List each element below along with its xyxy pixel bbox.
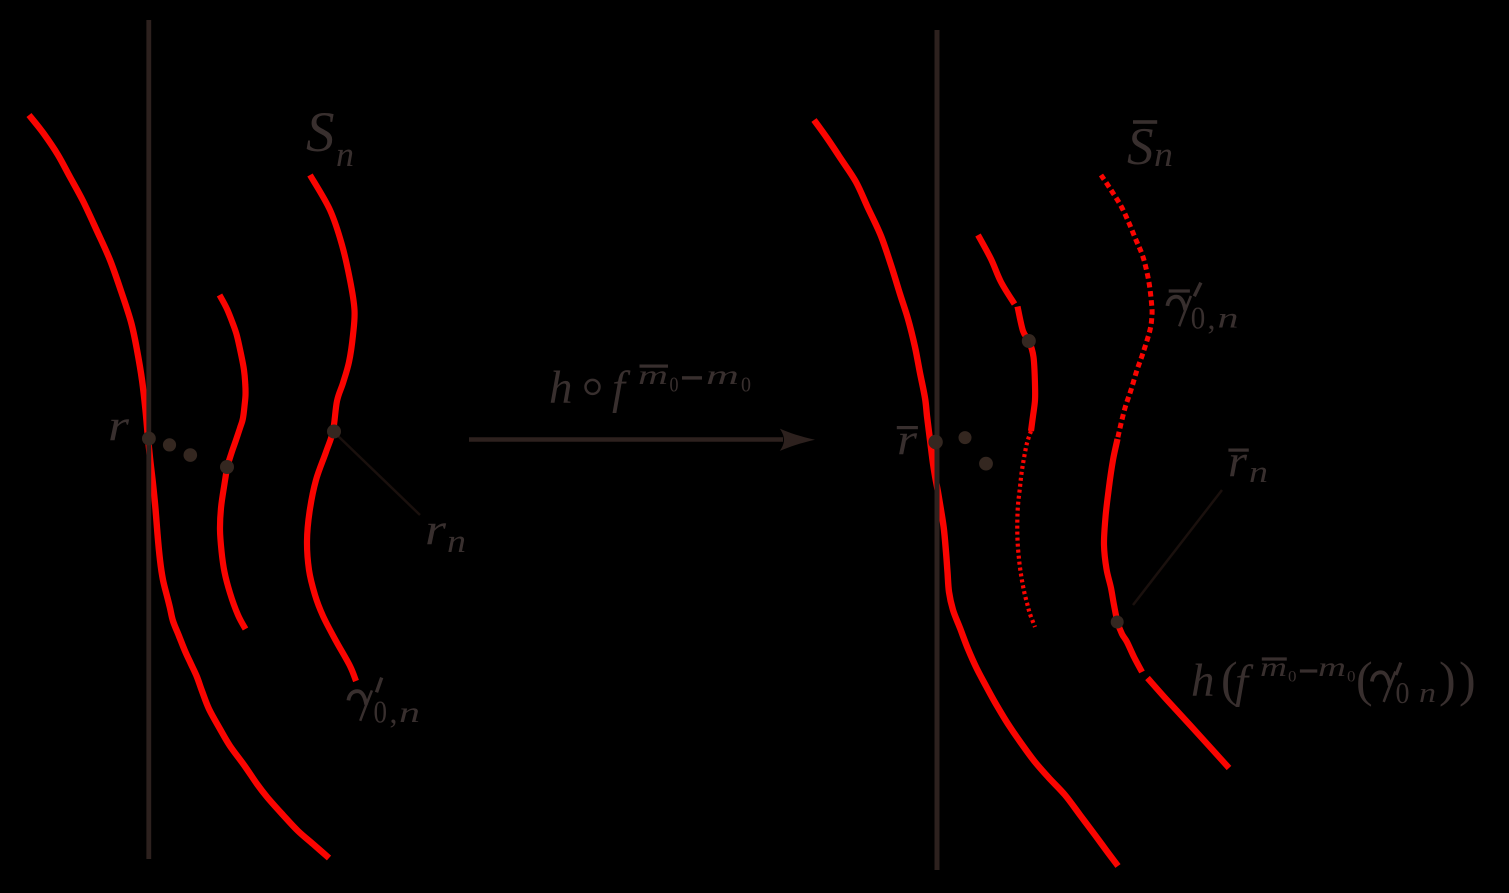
label bar-r_n : bar xyxy=(1228,449,1248,452)
svg-text:m: m xyxy=(638,360,668,390)
dot r on left line xyxy=(142,432,156,446)
svg-text:,: , xyxy=(390,694,398,730)
ellipsis dot 1 right xyxy=(959,431,972,444)
dot on left middle curve xyxy=(220,460,234,474)
svg-text:0: 0 xyxy=(374,694,388,730)
svg-text:0: 0 xyxy=(1191,300,1206,336)
big label : bar over m xyxy=(1262,657,1287,660)
svg-text:m: m xyxy=(706,360,739,390)
svg-text:S: S xyxy=(306,101,335,164)
dot r_n on S_n curve xyxy=(327,425,341,439)
pointer line to label r_n xyxy=(337,435,420,515)
svg-text:r: r xyxy=(108,401,130,450)
wire: left long red curve W xyxy=(29,115,329,858)
vertical line right panel xyxy=(935,30,940,870)
dot on h(f(gamma)) curve xyxy=(1111,616,1124,629)
svg-text:r: r xyxy=(897,415,918,464)
label h o f^m0-m0 : compose circle xyxy=(586,380,600,394)
wire: solid curve h(f(gamma)) part 2 xyxy=(1148,678,1230,768)
label bar-S_n : bar xyxy=(1133,120,1157,124)
svg-text:n: n xyxy=(1249,454,1268,489)
arrow head xyxy=(780,429,815,451)
wire: right middle solid segment B xyxy=(1018,307,1036,432)
svg-text:m: m xyxy=(1260,652,1287,682)
wire: right long red curve bar-W xyxy=(814,120,1118,866)
wire: right middle dashed tail xyxy=(1017,431,1035,627)
svg-text:): ) xyxy=(1439,651,1456,707)
wire: left middle red curve gamma_n xyxy=(220,295,246,629)
svg-text:n: n xyxy=(1419,677,1436,709)
label h o f^m0-m0 : bar over m xyxy=(640,365,669,368)
svg-text:,: , xyxy=(1208,300,1216,336)
label bar-r : bar xyxy=(897,426,918,429)
label bar-gamma'_0,n : bar xyxy=(1169,289,1190,292)
svg-text:r: r xyxy=(425,505,447,554)
svg-text:n: n xyxy=(336,135,354,174)
ellipsis dot 2 left xyxy=(184,448,198,462)
svg-text:n: n xyxy=(447,524,466,560)
svg-text:n: n xyxy=(1218,301,1239,334)
svg-text:h: h xyxy=(549,362,573,414)
svg-text:h: h xyxy=(1191,655,1215,707)
svg-text:S: S xyxy=(1127,118,1154,176)
svg-text:): ) xyxy=(1459,651,1476,707)
wire: solid curve h(f(gamma)) part 1 xyxy=(1104,439,1142,672)
label gamma'_0,n left : gamma xyxy=(348,691,366,704)
svg-text:m: m xyxy=(1318,652,1346,682)
svg-text:0: 0 xyxy=(1288,669,1297,686)
svg-text:0: 0 xyxy=(670,372,679,396)
label bar-gamma'_0,n : prime xyxy=(1194,283,1201,297)
ellipsis dot 2 right xyxy=(979,457,993,471)
label h o f^m0-m0 : minus xyxy=(682,376,702,379)
dot bar-r on right line xyxy=(928,435,942,449)
wire: left curve S_n / gamma'_0,n xyxy=(307,175,356,681)
vertical line left panel xyxy=(146,20,151,859)
pointer line to label bar-r_n xyxy=(1133,490,1222,605)
svg-text:n: n xyxy=(1154,135,1173,174)
big label : minus xyxy=(1300,669,1317,672)
dot on right middle curve xyxy=(1022,334,1036,348)
label gamma'_0,n left : prime xyxy=(377,678,382,693)
arrow shaft xyxy=(469,437,783,442)
wire: dotted curve bar-S_n xyxy=(1101,175,1152,439)
big label : prime xyxy=(1396,663,1401,675)
svg-text:(: ( xyxy=(1356,651,1373,707)
wire: right middle solid segment A xyxy=(978,235,1015,304)
ellipsis dot 1 left xyxy=(163,438,176,451)
svg-text:0: 0 xyxy=(1396,675,1410,710)
svg-text:n: n xyxy=(399,696,420,729)
svg-text:r: r xyxy=(1228,435,1248,486)
label bar-gamma'_0,n : gamma xyxy=(1167,296,1191,326)
big label : gamma xyxy=(1372,672,1396,702)
svg-text:0: 0 xyxy=(741,372,751,396)
svg-text:0: 0 xyxy=(1347,669,1356,686)
